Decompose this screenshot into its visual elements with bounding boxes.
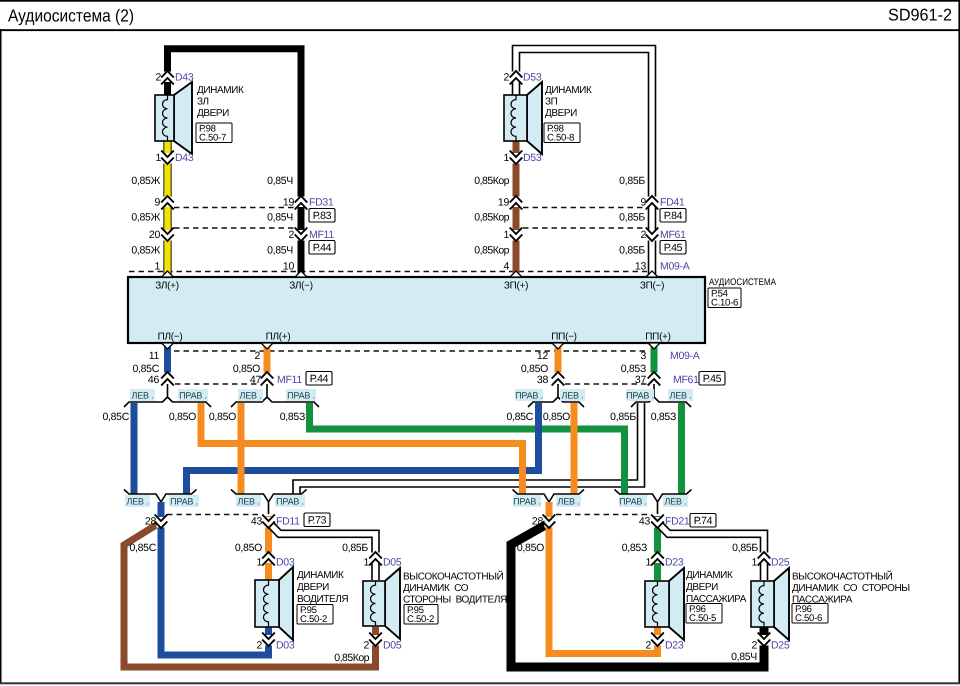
svg-text:Р.83: Р.83 xyxy=(313,210,332,222)
pin 2 of D03 xyxy=(256,633,294,652)
split node MF11 pin 47 xyxy=(231,384,319,407)
svg-text:4: 4 xyxy=(503,261,509,273)
wire white 0,85Б to D25 pin 1 xyxy=(659,524,764,580)
svg-text:0,85Б: 0,85Б xyxy=(619,175,645,187)
svg-text:3: 3 xyxy=(640,350,646,362)
wire orange 0,85О to D23 pin 2 xyxy=(549,502,658,654)
svg-text:ЛЕВ .: ЛЕВ . xyxy=(132,391,154,401)
svg-text:ЛЕВ .: ЛЕВ . xyxy=(558,497,580,507)
svg-text:0,85Кор: 0,85Кор xyxy=(474,245,509,257)
connector FD21 dashed line xyxy=(556,514,650,516)
connector MF11 lower pins 46/47 xyxy=(148,372,332,387)
svg-text:ЗП(−): ЗП(−) xyxy=(640,281,664,292)
wire orange 0,85О front-left positive xyxy=(261,343,273,378)
svg-text:FD41: FD41 xyxy=(660,197,685,209)
connector MF11 dashed line (lower) xyxy=(175,383,260,385)
svg-text:D05: D05 xyxy=(383,640,402,652)
svg-text:ПП(−): ПП(−) xyxy=(551,332,576,343)
svg-text:0,85С: 0,85С xyxy=(102,411,129,423)
svg-text:С.50-8: С.50-8 xyxy=(547,132,574,143)
speaker D43 ДИНАМИК ЗЛ ДВЕРИ xyxy=(155,82,244,154)
svg-text:Р.44: Р.44 xyxy=(313,242,332,254)
svg-text:0,85Ч: 0,85Ч xyxy=(267,175,293,187)
svg-text:1: 1 xyxy=(154,261,160,273)
svg-text:ПРАВ .: ПРАВ . xyxy=(619,497,647,507)
connector MF11 dashed line xyxy=(174,227,295,229)
svg-text:2: 2 xyxy=(155,72,161,84)
wire orange 0,85О left branch xyxy=(238,403,245,494)
wire orange 0,85О front-right negative xyxy=(552,343,564,378)
svg-text:MF11: MF11 xyxy=(277,374,302,386)
svg-text:43: 43 xyxy=(639,516,651,528)
svg-text:2: 2 xyxy=(503,72,509,84)
wire blue 0,85С left branch xyxy=(131,403,138,494)
connector MF61 dashed line xyxy=(523,227,646,229)
svg-text:ЛЕВ .: ЛЕВ . xyxy=(127,497,149,507)
svg-text:ЛЕВ .: ЛЕВ . xyxy=(238,497,260,507)
svg-text:ПРАВ .: ПРАВ . xyxy=(170,497,198,507)
svg-text:ПРАВ .: ПРАВ . xyxy=(513,497,541,507)
svg-text:2: 2 xyxy=(288,229,294,241)
svg-text:ДВЕРИ: ДВЕРИ xyxy=(686,582,718,593)
wire orange 0,85О right branch xyxy=(571,403,578,494)
svg-text:ДВЕРИ: ДВЕРИ xyxy=(297,582,329,593)
pin 2 of D43 xyxy=(155,71,193,85)
connector FD41 pins 19/9 xyxy=(498,196,686,222)
connector FD31 pins 9/19 xyxy=(154,196,335,222)
svg-text:38: 38 xyxy=(537,374,549,386)
svg-text:ПЛ(−): ПЛ(−) xyxy=(158,332,183,343)
merge node FD21 pin 43 xyxy=(615,490,692,515)
svg-text:0,85Ж: 0,85Ж xyxy=(131,212,160,224)
wire brown 0,85Кор rear-right speaker positive xyxy=(513,141,520,277)
svg-text:Р.74: Р.74 xyxy=(694,515,713,527)
title xyxy=(8,6,134,26)
wire label 0,85Кор bottom xyxy=(334,652,369,664)
svg-text:SD961-2: SD961-2 xyxy=(888,6,952,25)
svg-text:ЛЕВ .: ЛЕВ . xyxy=(670,391,692,401)
connector MF61 lower pins 38/37 xyxy=(537,372,725,387)
svg-text:0,85Кор: 0,85Кор xyxy=(474,212,509,224)
connector MF11 pins 20/2 xyxy=(149,228,335,255)
svg-text:ЗЛ(+): ЗЛ(+) xyxy=(155,281,179,292)
svg-text:MF61: MF61 xyxy=(673,374,699,386)
node box pin 13 xyxy=(646,271,658,277)
svg-text:1: 1 xyxy=(155,152,161,164)
svg-text:С.50-6: С.50-6 xyxy=(795,613,822,624)
speaker D03 ДИНАМИК ДВЕРИ ВОДИТЕЛЯ xyxy=(255,567,348,640)
speaker D23 ДИНАМИК ДВЕРИ ПАССАЖИРА xyxy=(645,568,747,640)
svg-text:Р.73: Р.73 xyxy=(308,515,327,527)
split node MF11 pin 46 xyxy=(124,384,211,407)
split node MF61 pin 38 xyxy=(515,384,585,407)
svg-text:1: 1 xyxy=(256,557,262,569)
svg-text:ДВЕРИ: ДВЕРИ xyxy=(545,108,577,119)
pin 2 of D53 xyxy=(503,71,541,85)
connector FD11 dashed line xyxy=(167,514,262,516)
connector M09-A dashed line (bottom) xyxy=(174,350,648,352)
split node MF61 pin 37 xyxy=(626,384,693,407)
svg-text:0,85Кор: 0,85Кор xyxy=(474,175,509,187)
wire orange 0,85О to D03 pin 1 xyxy=(265,516,272,580)
pin 1 of D05 xyxy=(363,552,401,569)
svg-text:АУДИОСИСТЕМА: АУДИОСИСТЕМА xyxy=(709,277,777,288)
node box pin 10 xyxy=(295,271,307,277)
connector M09-A lower pins 11/2/12/3 xyxy=(132,350,699,375)
svg-text:0,85С: 0,85С xyxy=(506,411,533,423)
svg-text:28: 28 xyxy=(532,516,544,528)
sheet number SD961-2 xyxy=(888,6,952,25)
pin 2 of D05 xyxy=(363,633,401,652)
svg-text:9: 9 xyxy=(640,197,646,209)
svg-text:Р.45: Р.45 xyxy=(664,242,683,254)
svg-text:С.50-7: С.50-7 xyxy=(199,132,226,143)
wire labels split row xyxy=(102,411,676,423)
svg-text:37: 37 xyxy=(635,374,647,386)
svg-text:M09-A: M09-A xyxy=(660,261,690,273)
node box pin 4 xyxy=(510,271,522,277)
svg-text:FD11: FD11 xyxy=(276,516,300,528)
svg-text:0,85Б: 0,85Б xyxy=(619,245,645,257)
wire label 0,85Кор column xyxy=(474,175,509,257)
svg-text:2: 2 xyxy=(645,640,651,652)
wire label 0,85Б column xyxy=(619,175,645,257)
svg-text:Р.84: Р.84 xyxy=(664,210,683,222)
wire label 0,85Ж column xyxy=(131,175,160,257)
svg-text:ЛЕВ .: ЛЕВ . xyxy=(562,391,584,401)
svg-text:ПРАВ .: ПРАВ . xyxy=(515,391,543,401)
svg-text:20: 20 xyxy=(149,229,161,241)
svg-text:10: 10 xyxy=(283,261,295,273)
svg-text:43: 43 xyxy=(251,516,263,528)
node box pin 1 xyxy=(162,271,174,277)
svg-text:2: 2 xyxy=(640,229,646,241)
svg-text:ЗП(+): ЗП(+) xyxy=(504,281,528,292)
svg-text:0,85З: 0,85З xyxy=(280,411,305,423)
wire blue 0,85С branch to FD11 xyxy=(187,403,539,494)
audio unit АУДИОСИСТЕМА xyxy=(128,277,777,343)
svg-text:ЗП: ЗП xyxy=(545,97,558,108)
svg-text:0,85Ч: 0,85Ч xyxy=(731,651,757,663)
pin 2 of D25 xyxy=(751,633,789,652)
wire blue 0,85С front-left negative xyxy=(162,343,174,378)
wire orange 0,85О branch to FD21 xyxy=(201,403,523,494)
connector M09-A pins 1/10/4/13 xyxy=(154,261,689,273)
svg-text:D43: D43 xyxy=(175,152,194,164)
pin 1 of D43 xyxy=(155,151,193,165)
wire green 0,85З front-right positive xyxy=(648,343,660,378)
svg-text:ВЫСОКОЧАСТОТНЫЙ: ВЫСОКОЧАСТОТНЫЙ xyxy=(403,570,504,583)
svg-text:1: 1 xyxy=(363,557,369,569)
svg-text:2: 2 xyxy=(363,640,369,652)
svg-text:С.50-5: С.50-5 xyxy=(689,613,716,624)
svg-text:0,85Кор: 0,85Кор xyxy=(334,652,369,664)
svg-text:D23: D23 xyxy=(665,557,684,569)
svg-text:M09-A: M09-A xyxy=(670,350,700,362)
svg-text:46: 46 xyxy=(148,374,160,386)
wire brown 0,85Кор branch to tweeter D05 xyxy=(124,522,376,667)
wire green 0,85З to D23 pin 1 xyxy=(654,516,661,580)
svg-text:ПРАВ .: ПРАВ . xyxy=(287,391,315,401)
svg-text:D05: D05 xyxy=(383,557,402,569)
svg-text:MF61: MF61 xyxy=(660,229,686,241)
svg-text:ДИНАМИК: ДИНАМИК xyxy=(197,85,244,96)
svg-text:СТОРОНЫ ВОДИТЕЛЯ: СТОРОНЫ ВОДИТЕЛЯ xyxy=(403,595,507,606)
svg-text:FD21: FD21 xyxy=(665,516,690,528)
svg-text:С.10-6: С.10-6 xyxy=(711,297,738,308)
svg-text:С.50-2: С.50-2 xyxy=(407,614,434,625)
svg-text:0,85О: 0,85О xyxy=(235,542,262,554)
wire green 0,85З right branch xyxy=(678,403,685,494)
svg-text:47: 47 xyxy=(250,374,262,386)
svg-text:ДИНАМИК: ДИНАМИК xyxy=(545,85,592,96)
svg-text:0,85Ч: 0,85Ч xyxy=(267,245,293,257)
svg-text:Аудиосистема (2): Аудиосистема (2) xyxy=(8,6,134,26)
svg-text:28: 28 xyxy=(145,516,157,528)
wire green 0,85З branch to FD21 xyxy=(310,403,625,494)
svg-text:ДИНАМИК: ДИНАМИК xyxy=(686,570,733,581)
svg-text:2: 2 xyxy=(254,350,260,362)
svg-text:19: 19 xyxy=(498,197,510,209)
connector M09-A dashed line (top) xyxy=(129,271,647,273)
svg-text:0,85Б: 0,85Б xyxy=(732,542,758,554)
connector FD41 dashed line xyxy=(523,207,646,209)
speaker D05 ВЫСОКОЧАСТОТНЫЙ ДИНАМИК СО СТОРОНЫ ВОДИТЕЛЯ xyxy=(363,568,507,639)
svg-text:0,85О: 0,85О xyxy=(517,542,544,554)
svg-text:1: 1 xyxy=(503,229,509,241)
svg-text:Р.45: Р.45 xyxy=(703,373,722,385)
svg-text:D53: D53 xyxy=(523,152,542,164)
svg-text:D23: D23 xyxy=(665,640,684,652)
svg-text:0,85Ж: 0,85Ж xyxy=(131,175,160,187)
svg-text:D53: D53 xyxy=(523,72,542,84)
svg-text:ПРАВ .: ПРАВ . xyxy=(179,391,207,401)
svg-text:Р.44: Р.44 xyxy=(310,373,329,385)
pin 1 of D25 xyxy=(751,552,789,569)
svg-text:11: 11 xyxy=(149,350,160,362)
pin 1 of D53 xyxy=(503,151,541,165)
connector MF61 dashed line (lower) xyxy=(565,383,647,385)
svg-text:19: 19 xyxy=(283,197,295,209)
svg-text:ЗЛ: ЗЛ xyxy=(197,97,209,108)
svg-text:ПЛ(+): ПЛ(+) xyxy=(266,332,291,343)
svg-text:MF11: MF11 xyxy=(309,229,334,241)
merge node FD21 pin 28 xyxy=(513,490,585,515)
svg-text:ДИНАМИК: ДИНАМИК xyxy=(297,570,344,581)
svg-text:ДИНАМИК СО СТОРОНЫ: ДИНАМИК СО СТОРОНЫ xyxy=(792,583,910,594)
svg-text:0,85Б: 0,85Б xyxy=(619,212,645,224)
svg-text:ПП(+): ПП(+) xyxy=(645,332,670,343)
speaker D25 ВЫСОКОЧАСТОТНЫЙ ДИНАМИК СО СТОРОНЫ ПАССАЖИРА xyxy=(751,568,910,640)
connector MF61 pins 1/2 xyxy=(503,228,686,255)
svg-text:0,85Ж: 0,85Ж xyxy=(131,245,160,257)
svg-text:2: 2 xyxy=(751,640,757,652)
svg-text:D03: D03 xyxy=(276,640,295,652)
wire label 0,85Ч column xyxy=(267,175,293,257)
svg-text:0,85О: 0,85О xyxy=(543,411,570,423)
svg-text:D03: D03 xyxy=(276,557,295,569)
wire labels merge row xyxy=(129,542,758,554)
svg-text:1: 1 xyxy=(503,152,509,164)
svg-text:1: 1 xyxy=(751,557,757,569)
merge node FD11 pin 28 xyxy=(124,490,199,515)
wire black 0,85Ч rear-left speaker negative xyxy=(168,49,302,277)
svg-text:0,85Б: 0,85Б xyxy=(610,411,636,423)
wire yellow 0,85Ж rear-left speaker positive xyxy=(163,141,171,277)
svg-text:С.50-2: С.50-2 xyxy=(300,614,327,625)
svg-text:ЗЛ(−): ЗЛ(−) xyxy=(289,281,313,292)
wire label 0,85Ч bottom xyxy=(731,651,757,663)
svg-text:0,85С: 0,85С xyxy=(129,542,156,554)
svg-text:0,85З: 0,85З xyxy=(651,411,676,423)
svg-text:D25: D25 xyxy=(771,640,790,652)
pin 1 of D03 xyxy=(256,552,294,569)
svg-text:ЛЕВ .: ЛЕВ . xyxy=(665,497,687,507)
svg-text:1: 1 xyxy=(645,557,651,569)
wire white 0,85Б front-right negative branch to FD11 xyxy=(297,403,642,494)
connector FD31 dashed line xyxy=(174,207,295,209)
svg-text:ДИНАМИК СО: ДИНАМИК СО xyxy=(403,583,469,594)
svg-text:ПРАВ .: ПРАВ . xyxy=(276,497,304,507)
connector FD21 pins 28/43 xyxy=(532,514,716,529)
svg-text:ЛЕВ .: ЛЕВ . xyxy=(240,391,262,401)
speaker D53 ДИНАМИК ЗП ДВЕРИ xyxy=(504,82,592,154)
wire blue 0,85С to D03 pin 2 xyxy=(161,502,269,655)
wire white 0,85Б rear-right speaker negative xyxy=(516,49,652,277)
merge node FD11 pin 43 xyxy=(231,490,307,515)
pin 2 of D23 xyxy=(645,633,683,652)
svg-text:D25: D25 xyxy=(771,557,790,569)
svg-text:0,85О: 0,85О xyxy=(209,411,236,423)
wire white 0,85Б to D05 pin 1 xyxy=(270,524,376,580)
svg-text:FD31: FD31 xyxy=(309,197,334,209)
svg-text:0,85Б: 0,85Б xyxy=(342,542,368,554)
svg-text:2: 2 xyxy=(256,640,262,652)
svg-text:0,85Ч: 0,85Ч xyxy=(267,212,293,224)
svg-text:9: 9 xyxy=(154,197,160,209)
svg-text:ВОДИТЕЛЯ: ВОДИТЕЛЯ xyxy=(297,594,348,605)
svg-text:12: 12 xyxy=(537,350,549,362)
svg-text:ВЫСОКОЧАСТОТНЫЙ: ВЫСОКОЧАСТОТНЫЙ xyxy=(792,570,893,583)
svg-text:ПРАВ .: ПРАВ . xyxy=(626,391,654,401)
svg-text:ДВЕРИ: ДВЕРИ xyxy=(197,108,229,119)
svg-text:D43: D43 xyxy=(175,72,194,84)
pin 1 of D23 xyxy=(645,552,683,569)
svg-text:13: 13 xyxy=(635,261,647,273)
svg-text:0,85З: 0,85З xyxy=(622,542,647,554)
wire black 0,85Ч branch to tweeter D25 xyxy=(511,523,764,667)
connector FD11 pins 28/43 xyxy=(145,513,330,528)
svg-text:0,85О: 0,85О xyxy=(169,411,196,423)
